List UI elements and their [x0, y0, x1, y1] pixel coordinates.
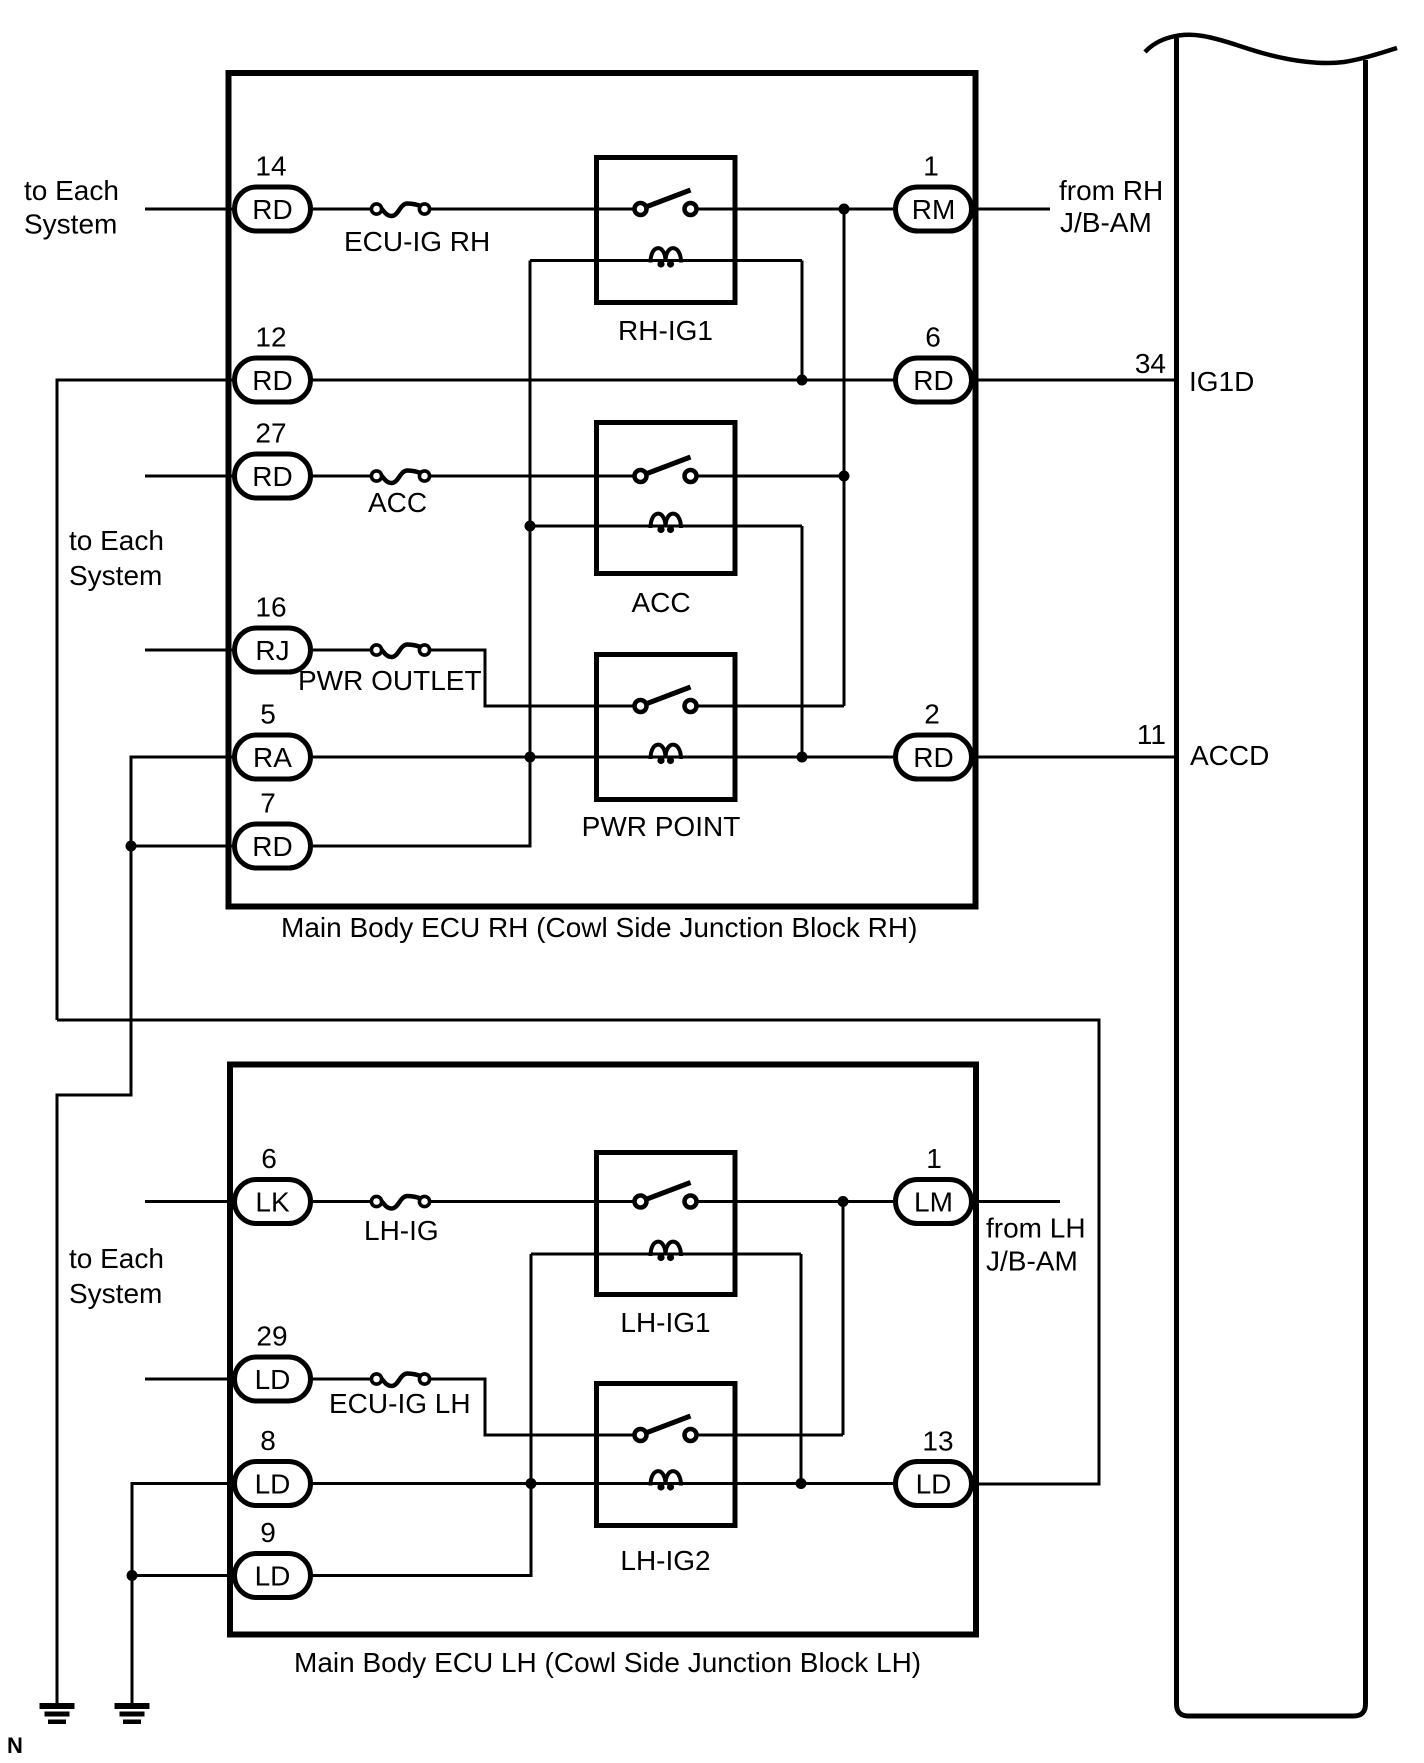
svg-text:RJ: RJ [255, 635, 289, 666]
svg-text:RD: RD [252, 365, 292, 396]
relay LH-IG2 switch [635, 1416, 697, 1441]
svg-text:ACC: ACC [368, 487, 427, 518]
connector pin 1 LM [896, 1143, 972, 1224]
wire IG1D pin 12 to pin 6 [313, 379, 893, 382]
svg-text:RD: RD [913, 742, 953, 773]
svg-text:29: 29 [256, 1321, 287, 1352]
junction dot ACCD / x802 [797, 752, 808, 763]
wire fuse ECU-IG LH to relay LH-IG2 switch [429, 1379, 635, 1435]
svg-text:8: 8 [260, 1425, 276, 1456]
fuse ECU-IG RH [371, 204, 429, 217]
ground G1 [40, 1703, 75, 1724]
wire node x844 vertical [843, 209, 846, 706]
svg-text:1: 1 [926, 1143, 942, 1174]
svg-text:RD: RD [913, 365, 953, 396]
ground G2 [115, 1703, 150, 1724]
wire pin 12 left to net corner [57, 380, 232, 1020]
wire stub to pin 27 [145, 475, 232, 478]
svg-text:LD: LD [916, 1469, 952, 1500]
svg-text:ECU-IG RH: ECU-IG RH [344, 226, 490, 257]
relay ACC switch [635, 457, 697, 482]
junction dot RM wire / x844 [839, 204, 850, 215]
svg-text:LH-IG1: LH-IG1 [620, 1307, 710, 1338]
wire relay LH-IG1 switch output to pin 1 LM [696, 1200, 893, 1203]
svg-text:ACCD: ACCD [1190, 740, 1269, 771]
junction dot pin 7 / x131 [126, 841, 137, 852]
ECU LH box (Main Body ECU LH) [230, 1065, 976, 1635]
fuse ACC [371, 471, 429, 484]
harness break wavy line [1145, 35, 1397, 63]
svg-text:6: 6 [261, 1143, 277, 1174]
wire pin 27 to fuse ACC [313, 475, 372, 478]
svg-text:ECU-IG LH: ECU-IG LH [329, 1388, 471, 1419]
wire node x843 vertical [842, 1202, 845, 1436]
svg-text:7: 7 [260, 788, 276, 819]
svg-text:from RH: from RH [1059, 175, 1163, 206]
svg-text:RD: RD [252, 461, 292, 492]
svg-text:27: 27 [255, 418, 286, 449]
label from RH J/B-AM [1059, 175, 1163, 238]
wire relay LH-IG2 switch output to node x843 [696, 1434, 843, 1437]
relay PWR POINT switch [635, 687, 697, 712]
svg-text:13: 13 [922, 1426, 953, 1457]
fuse LH-IG [371, 1196, 429, 1209]
relay ACC coil [651, 514, 682, 533]
connector pin 6 LK [235, 1143, 311, 1224]
wire fuse ECU-IG RH to relay RH-IG1 switch [429, 208, 635, 211]
wire relay ACC switch output to node x844 [696, 475, 844, 478]
fuse PWR OUTLET [371, 645, 429, 658]
node 34 IG1D [1135, 348, 1255, 397]
wire RH-IG1 coil to IG1D net [801, 261, 804, 381]
wire pin 6 LK to fuse LH-IG [313, 1200, 372, 1203]
connector pin 29 LD [235, 1321, 311, 1402]
relay RH-IG1 coil [651, 248, 682, 267]
relay RH-IG1 box [597, 158, 736, 303]
wire stub to pin 16 [145, 649, 232, 652]
junction dot ACCD / x530 [525, 752, 536, 763]
connector pin 16 RJ [235, 592, 311, 673]
svg-text:LD: LD [255, 1561, 291, 1592]
connector pin 7 RD [235, 788, 311, 869]
svg-text:34: 34 [1135, 348, 1166, 379]
connector pin 1 RM [896, 151, 972, 232]
svg-text:to Each: to Each [24, 175, 119, 206]
connector pin 13 LD [896, 1426, 972, 1506]
svg-text:9: 9 [260, 1517, 276, 1548]
wire relay ACC coil row [530, 525, 802, 528]
relay LH-IG1 box [597, 1153, 736, 1295]
wire fuse PWR OUTLET to relay PWR POINT switch [429, 650, 635, 706]
svg-text:to Each: to Each [69, 525, 164, 556]
wire pin 29 LD to fuse ECU-IG LH [313, 1378, 372, 1381]
wire pin 6 RD to harness IG1D [974, 379, 1176, 382]
svg-text:RD: RD [252, 194, 292, 225]
wire pin 14 to fuse ECU-IG RH [313, 208, 372, 211]
svg-text:2: 2 [924, 699, 940, 730]
svg-text:LH-IG: LH-IG [364, 1215, 439, 1246]
connector pin 27 RD [235, 418, 311, 499]
wire pin 8 LD left to ground net [132, 1484, 232, 1704]
connector pin 5 RA [235, 699, 311, 780]
svg-text:LD: LD [255, 1364, 291, 1395]
wire fuse LH-IG to relay LH-IG1 switch [429, 1200, 635, 1203]
wire stub pin 7 to junction [131, 845, 232, 848]
relay ACC box [597, 423, 736, 574]
svg-text:from LH: from LH [986, 1213, 1086, 1244]
wire pin 8 LD to relay LH-IG2 coil and pin 13 LD [313, 1482, 893, 1485]
wire pin 16 to fuse PWR OUTLET [313, 649, 372, 652]
junction dot ACC coil / x530 [525, 521, 536, 532]
wire stub pin 9 to junction [132, 1574, 232, 1577]
svg-text:RH-IG1: RH-IG1 [618, 315, 713, 346]
junction dot pin 8 / x531 [526, 1478, 537, 1489]
svg-text:LK: LK [255, 1187, 290, 1218]
harness bus RH/LH J/B [1177, 38, 1366, 1716]
wire stub to pin 14 [145, 208, 232, 211]
fuse ECU-IG LH [371, 1374, 429, 1387]
wire relay RH-IG1 switch output to pin 1 RM [696, 208, 893, 211]
wire relay LH-IG1 coil row [531, 1253, 801, 1256]
svg-text:Main Body ECU RH (Cowl Side Ju: Main Body ECU RH (Cowl Side Junction Blo… [281, 912, 917, 943]
svg-text:RD: RD [252, 831, 292, 862]
junction dot ACC switch output / x844 [839, 471, 850, 482]
svg-text:to Each: to Each [69, 1243, 164, 1274]
relay LH-IG1 switch [635, 1183, 697, 1208]
wire relay PWR POINT switch output to node x844 [696, 705, 844, 708]
relay PWR POINT box [597, 655, 736, 800]
wire pin 1 RM to from RH J/B-AM [974, 208, 1050, 211]
svg-text:Main Body ECU LH (Cowl Side Ju: Main Body ECU LH (Cowl Side Junction Blo… [294, 1647, 921, 1678]
svg-text:System: System [24, 209, 117, 240]
label to Each System (top left) [24, 175, 119, 240]
wire LH-IG1 coil to pin 13 net [800, 1254, 803, 1484]
label to Each System (mid left) [69, 525, 164, 591]
svg-text:RA: RA [253, 742, 292, 773]
label to Each System (LH left) [69, 1243, 164, 1309]
wire pin 2 RD to harness ACCD [974, 756, 1176, 759]
svg-text:System: System [69, 560, 162, 591]
svg-text:J/B-AM: J/B-AM [986, 1246, 1078, 1277]
svg-text:1: 1 [923, 151, 939, 182]
svg-text:12: 12 [255, 322, 286, 353]
wire relay RH-IG1 coil row [530, 259, 802, 262]
ECU RH box (Main Body ECU RH) [229, 73, 976, 907]
relay PWR POINT coil [651, 745, 682, 764]
svg-text:11: 11 [1137, 719, 1166, 750]
connector pin 2 RD [896, 699, 972, 780]
junction dot LM wire / x843 [838, 1196, 849, 1207]
svg-text:ACC: ACC [631, 587, 690, 618]
svg-text:N: N [7, 1733, 23, 1758]
svg-text:14: 14 [255, 151, 286, 182]
wire stub to pin 6 LK [145, 1200, 232, 1203]
svg-text:LM: LM [914, 1187, 953, 1218]
wire pin 1 LM to from LH J/B-AM [974, 1200, 1060, 1203]
wire pin 9 right to node x531 [313, 1254, 531, 1576]
wire bus pin 12 net to pin 13 LD [57, 1020, 1099, 1484]
wire ACC coil to ACCD net [801, 526, 804, 757]
relay LH-IG2 box [597, 1384, 736, 1526]
junction dot pin 9 / x132 [127, 1570, 138, 1581]
svg-text:LD: LD [255, 1469, 291, 1500]
relay LH-IG1 coil [651, 1242, 682, 1261]
svg-text:6: 6 [925, 322, 941, 353]
relay LH-IG2 coil [651, 1471, 682, 1490]
junction dot IG1D / x802 [797, 375, 808, 386]
connector pin 14 RD [235, 151, 311, 232]
svg-text:J/B-AM: J/B-AM [1060, 207, 1152, 238]
connector pin 12 RD [235, 322, 311, 403]
label from LH J/B-AM [986, 1213, 1086, 1277]
svg-text:16: 16 [255, 592, 286, 623]
wire pin 5 RA left down to ground net [57, 757, 232, 1703]
svg-text:System: System [69, 1278, 162, 1309]
relay RH-IG1 switch [635, 190, 697, 215]
junction dot pin 13 net / x801 [796, 1478, 807, 1489]
svg-text:PWR OUTLET: PWR OUTLET [298, 665, 482, 696]
svg-text:5: 5 [260, 699, 276, 730]
connector pin 8 LD [235, 1425, 311, 1506]
connector pin 9 LD [235, 1517, 311, 1598]
wire stub to pin 29 LD [145, 1378, 232, 1381]
svg-text:LH-IG2: LH-IG2 [620, 1545, 710, 1576]
wire fuse ACC to relay ACC switch [429, 475, 635, 478]
wire pin 7 right to node x530 [313, 261, 530, 847]
node 11 ACCD [1137, 719, 1269, 771]
svg-text:IG1D: IG1D [1189, 366, 1254, 397]
svg-text:RM: RM [912, 194, 956, 225]
connector pin 6 RD [896, 322, 972, 403]
svg-text:PWR POINT: PWR POINT [582, 811, 741, 842]
wire ACCD pin 5 RA to pin 2 RD [313, 756, 893, 759]
